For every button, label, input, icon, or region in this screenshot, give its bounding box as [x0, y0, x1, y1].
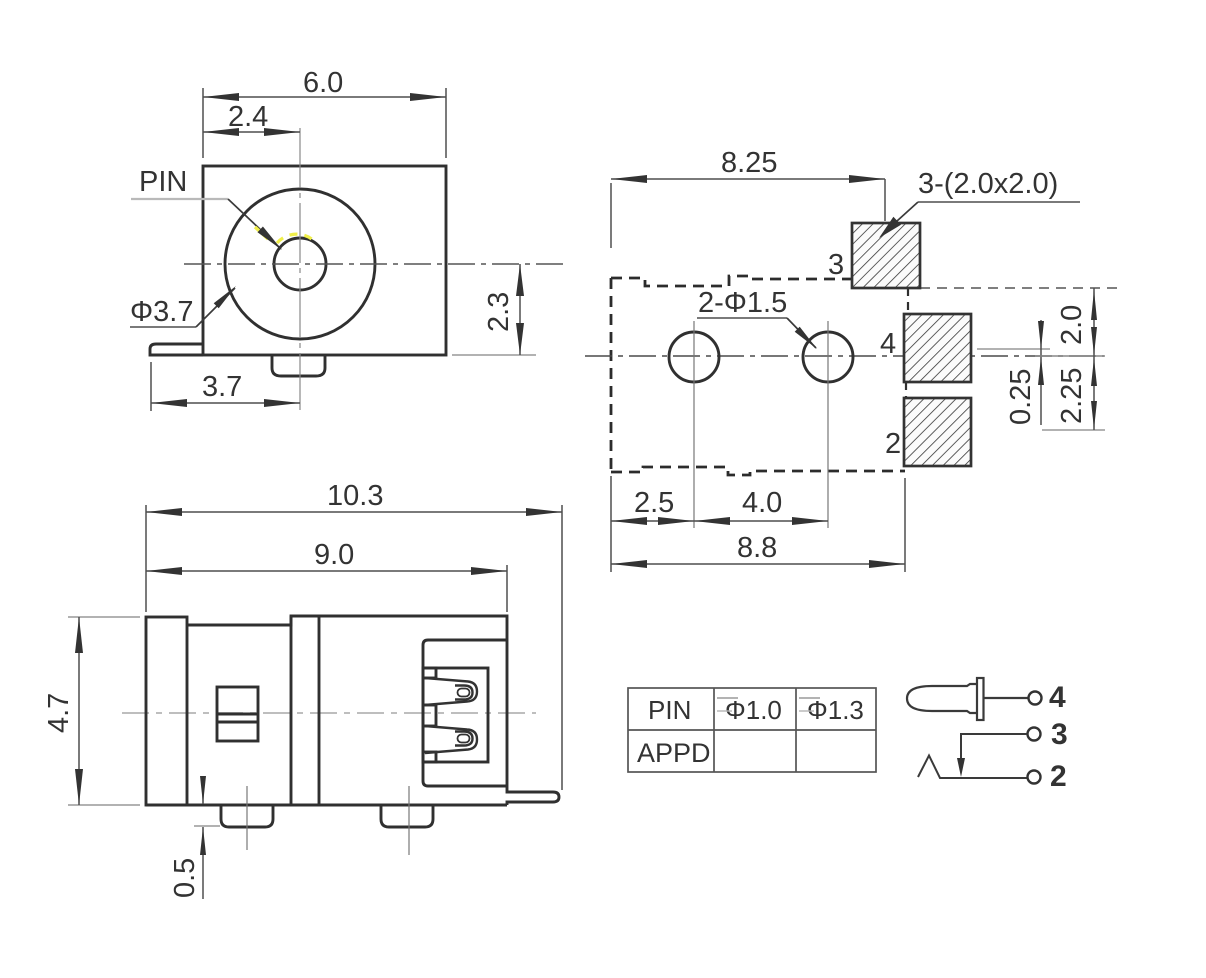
svg-text:2: 2 [885, 428, 901, 460]
centerline [122, 712, 536, 714]
horizontal centerline [184, 263, 563, 265]
pin circle [274, 238, 326, 290]
pin 2 spring contact [918, 756, 1027, 779]
svg-text:3.7: 3.7 [202, 371, 242, 403]
bump centerlines [246, 786, 248, 850]
svg-text:Φ1.3: Φ1.3 [807, 695, 864, 725]
dim 0.5 [194, 825, 220, 827]
bottom bump [272, 355, 325, 376]
body outline side view [187, 616, 559, 805]
dim 9.0 [506, 565, 508, 612]
svg-text:2-Φ1.5: 2-Φ1.5 [698, 287, 787, 319]
dim 2.5 4.0 [610, 476, 612, 572]
bump left [221, 805, 273, 827]
barrel circle [225, 189, 375, 339]
dim 4.7 [68, 616, 140, 618]
svg-text:3: 3 [828, 249, 844, 281]
pad 2 [904, 398, 971, 466]
svg-text:4: 4 [1049, 681, 1066, 714]
svg-text:2: 2 [1050, 760, 1067, 793]
pad 4 [904, 314, 971, 382]
dim 8.8 [904, 478, 906, 572]
hole H1 [669, 332, 719, 382]
inner notch bottom [423, 752, 436, 762]
pin 3 lead and terminal [1028, 728, 1041, 741]
svg-text:Φ3.7: Φ3.7 [130, 296, 193, 328]
svg-text:4.0: 4.0 [742, 487, 782, 519]
dim 3.7 [150, 362, 152, 411]
svg-text:2.25: 2.25 [1056, 368, 1088, 424]
svg-text:10.3: 10.3 [327, 480, 383, 512]
svg-text:2.3: 2.3 [483, 292, 515, 332]
svg-text:4: 4 [880, 328, 896, 360]
svg-text:4.7: 4.7 [43, 693, 75, 733]
upper contact claw [425, 678, 477, 705]
svg-text:6.0: 6.0 [303, 67, 343, 99]
PIN leader [131, 198, 228, 200]
bump right [381, 805, 433, 827]
vertical centerline [299, 128, 301, 410]
svg-text:Φ1.0: Φ1.0 [725, 695, 782, 725]
left flange [146, 617, 187, 805]
connector inner frame [423, 668, 488, 762]
pin 4 lead and terminal [984, 697, 1028, 699]
pad 3 [852, 223, 920, 288]
dim 8.25 [610, 183, 612, 248]
mounting tab [150, 344, 203, 355]
hole centerlines [693, 321, 695, 528]
yellow highlight on pin circle arc [277, 234, 313, 243]
dashed line at pad3 bottom [920, 287, 1117, 289]
lower contact claw [425, 726, 477, 753]
bottom edge [146, 804, 507, 807]
centerline [585, 355, 1104, 357]
right dim 2.0 / 2.25 [1042, 429, 1105, 431]
svg-text:8.8: 8.8 [737, 532, 777, 564]
dim 6.0 [202, 88, 204, 158]
svg-text:8.25: 8.25 [721, 147, 777, 179]
dim 2.3 [452, 354, 536, 356]
barrel face lines [290, 616, 293, 805]
inner notch middle [423, 705, 436, 726]
svg-text:APPD: APPD [637, 738, 711, 768]
symbol pin 4 barrel [907, 684, 977, 713]
latch rectangle [217, 687, 258, 741]
svg-text:2.4: 2.4 [228, 101, 268, 133]
svg-text:PIN: PIN [648, 695, 691, 725]
hole H2 [803, 332, 853, 382]
dim 10.3 [145, 505, 147, 612]
inner notch top [423, 668, 436, 678]
svg-text:0.5: 0.5 [169, 858, 201, 898]
spec table [628, 688, 876, 772]
pcb outline dashed [611, 276, 852, 286]
svg-text:3: 3 [1051, 718, 1068, 751]
right dim 0.25 [977, 348, 1050, 350]
svg-text:2.0: 2.0 [1056, 305, 1088, 345]
svg-text:PIN: PIN [139, 166, 187, 198]
connector housing [423, 640, 507, 786]
svg-text:2.5: 2.5 [634, 487, 674, 519]
svg-text:0.25: 0.25 [1005, 369, 1037, 425]
svg-text:9.0: 9.0 [314, 539, 354, 571]
dim 2.4 [203, 131, 300, 133]
svg-text:3-(2.0x2.0): 3-(2.0x2.0) [918, 168, 1058, 200]
symbol tip plate [977, 678, 984, 720]
jack body front view J1 [203, 166, 446, 355]
